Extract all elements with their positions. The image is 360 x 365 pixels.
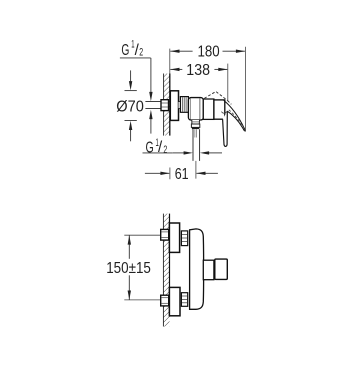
svg-text:/: / (158, 139, 163, 156)
svg-text:G: G (146, 139, 154, 156)
svg-text:61: 61 (175, 166, 189, 183)
svg-text:2: 2 (139, 47, 143, 59)
svg-text:Ø70: Ø70 (116, 98, 144, 115)
svg-text:150±15: 150±15 (106, 260, 151, 277)
svg-text:G: G (121, 42, 129, 59)
svg-text:138: 138 (186, 62, 210, 79)
svg-text:180: 180 (198, 44, 221, 61)
svg-text:2: 2 (163, 144, 167, 156)
